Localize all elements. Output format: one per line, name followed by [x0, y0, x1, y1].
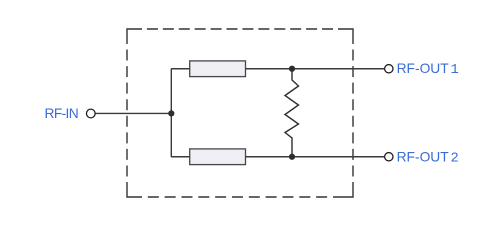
- enclosure dashed box top-right corner: [338, 29, 353, 44]
- terminal RF-OUT 2 circle: [385, 153, 393, 161]
- svg-text:1: 1: [451, 63, 459, 78]
- svg-text:RF-OUT: RF-OUT: [397, 149, 450, 164]
- enclosure dashed box bottom-left corner: [127, 182, 142, 197]
- svg-text:RF-OUT: RF-OUT: [397, 61, 450, 76]
- enclosure dashed box left edge: [126, 50, 128, 177]
- wire top branch left: [171, 68, 190, 70]
- enclosure dashed box right edge: [352, 50, 354, 177]
- transmission line TL2 (bottom series element): [190, 149, 246, 165]
- node B junction dot (top): [289, 66, 295, 72]
- node A junction dot: [168, 110, 174, 116]
- enclosure dashed box bottom edge: [148, 196, 327, 198]
- terminal RF-OUT 1 circle: [385, 65, 393, 73]
- wire input RF-IN to node A: [95, 112, 171, 114]
- wire bottom branch right to RF-OUT 2: [246, 156, 385, 158]
- enclosure dashed box top edge: [147, 28, 333, 30]
- wire top branch right to RF-OUT 1: [246, 68, 385, 70]
- svg-text:RF-IN: RF-IN: [45, 106, 79, 121]
- enclosure dashed box bottom-right corner: [333, 182, 353, 197]
- wire vertical branch: [170, 69, 172, 157]
- wire bottom branch left: [171, 156, 190, 158]
- svg-text:2: 2: [451, 151, 459, 166]
- node C junction dot (bottom): [289, 154, 295, 160]
- resistor R1 (isolation resistor zigzag): [285, 69, 299, 157]
- transmission line TL1 (top series element): [190, 61, 246, 77]
- enclosure dashed box top-left corner: [127, 29, 142, 44]
- terminal RF-IN circle: [86, 109, 95, 118]
